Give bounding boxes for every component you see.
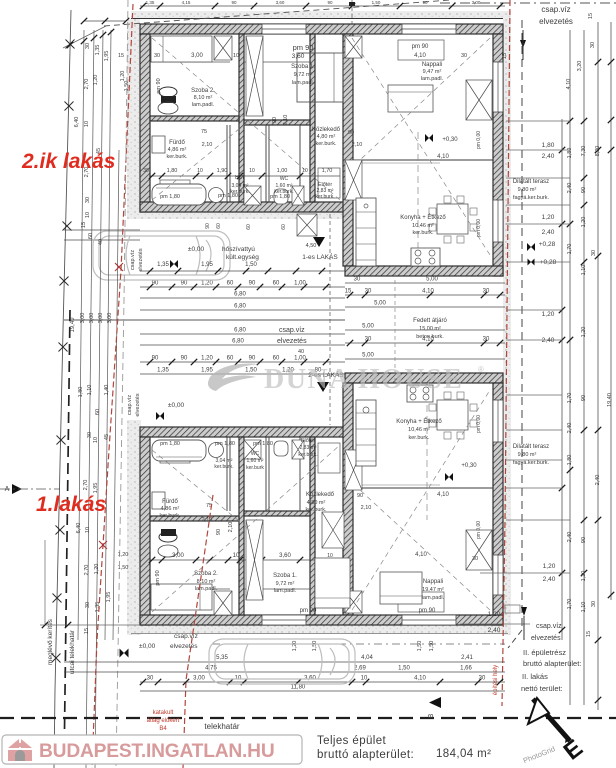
svg-text:1,20: 1,20 bbox=[581, 571, 587, 582]
svg-text:elvezetés: elvezetés bbox=[138, 248, 144, 271]
svg-text:60: 60 bbox=[273, 281, 280, 287]
svg-text:60: 60 bbox=[88, 233, 94, 239]
svg-text:+0,30: +0,30 bbox=[461, 463, 477, 469]
svg-text:ker.burk.: ker.burk. bbox=[412, 230, 434, 236]
svg-text:10: 10 bbox=[93, 437, 99, 443]
svg-text:pm 90: pm 90 bbox=[155, 570, 161, 585]
svg-text:DUNA HOUSE: DUNA HOUSE bbox=[264, 364, 463, 395]
svg-text:1,10: 1,10 bbox=[581, 602, 587, 613]
svg-text:1,50: 1,50 bbox=[417, 641, 423, 652]
svg-text:4,86 m²: 4,86 m² bbox=[161, 506, 180, 512]
svg-text:1,95: 1,95 bbox=[201, 262, 213, 268]
svg-text:8,20: 8,20 bbox=[595, 146, 601, 157]
svg-text:+0,28: +0,28 bbox=[540, 259, 557, 266]
svg-text:15: 15 bbox=[588, 13, 594, 19]
svg-text:pm 90: pm 90 bbox=[412, 44, 429, 50]
svg-text:90: 90 bbox=[249, 281, 256, 287]
svg-text:40: 40 bbox=[98, 239, 104, 245]
svg-text:1,80: 1,80 bbox=[167, 168, 178, 174]
svg-text:pm 1,80: pm 1,80 bbox=[215, 441, 235, 447]
svg-text:1,20: 1,20 bbox=[93, 75, 99, 86]
svg-text:1,90: 1,90 bbox=[217, 168, 228, 174]
svg-text:2,70: 2,70 bbox=[83, 480, 89, 491]
svg-text:pm 0,00: pm 0,00 bbox=[476, 131, 482, 149]
svg-text:1,50: 1,50 bbox=[245, 262, 257, 268]
svg-text:4,10: 4,10 bbox=[415, 552, 427, 558]
svg-text:1,66: 1,66 bbox=[460, 666, 472, 672]
svg-text:1,20: 1,20 bbox=[201, 356, 213, 362]
svg-text:Konyha + Étkező: Konyha + Étkező bbox=[400, 214, 446, 221]
svg-text:1,20: 1,20 bbox=[542, 311, 555, 318]
svg-text:csap.víz: csap.víz bbox=[127, 395, 133, 415]
svg-text:184,04 m²: 184,04 m² bbox=[436, 748, 491, 760]
svg-text:2,70: 2,70 bbox=[84, 79, 90, 90]
svg-text:6,80: 6,80 bbox=[234, 328, 246, 334]
svg-text:15,00 m²: 15,00 m² bbox=[419, 326, 441, 332]
svg-text:6,40: 6,40 bbox=[74, 117, 80, 128]
svg-text:1,20: 1,20 bbox=[94, 564, 100, 575]
svg-text:2,40: 2,40 bbox=[567, 532, 573, 543]
svg-text:Szoba 1.: Szoba 1. bbox=[291, 64, 315, 70]
svg-text:pm 1,80: pm 1,80 bbox=[253, 441, 273, 447]
svg-text:ker.burk.: ker.burk. bbox=[298, 452, 317, 458]
svg-text:10: 10 bbox=[233, 53, 239, 59]
svg-text:lam.padl.: lam.padl. bbox=[192, 102, 215, 108]
svg-text:csap.víz: csap.víz bbox=[279, 327, 305, 334]
svg-text:1,95: 1,95 bbox=[106, 592, 112, 603]
svg-text:90: 90 bbox=[181, 281, 188, 287]
svg-text:1,70: 1,70 bbox=[567, 393, 573, 404]
svg-text:1-es LAKÁS: 1-es LAKÁS bbox=[302, 252, 338, 261]
svg-text:1,50: 1,50 bbox=[312, 641, 318, 652]
svg-text:lam.padl.: lam.padl. bbox=[422, 595, 445, 601]
svg-text:1,50: 1,50 bbox=[372, 0, 381, 5]
svg-text:30: 30 bbox=[354, 277, 361, 283]
svg-text:kült.egység: kült.egység bbox=[226, 254, 259, 261]
svg-text:2,41: 2,41 bbox=[461, 655, 473, 661]
svg-text:pm 0,00: pm 0,00 bbox=[476, 219, 482, 237]
svg-text:2,40: 2,40 bbox=[542, 229, 555, 236]
svg-text:6,80: 6,80 bbox=[234, 304, 246, 310]
svg-text:45: 45 bbox=[104, 434, 110, 440]
svg-text:2,10: 2,10 bbox=[228, 522, 234, 533]
svg-text:10: 10 bbox=[197, 168, 203, 174]
svg-text:5,00: 5,00 bbox=[374, 301, 386, 307]
svg-text:1,10: 1,10 bbox=[581, 265, 587, 276]
svg-text:1,20: 1,20 bbox=[542, 214, 555, 221]
svg-text:2.ik lakás: 2.ik lakás bbox=[21, 150, 115, 173]
svg-text:90: 90 bbox=[216, 529, 222, 535]
svg-text:4,10: 4,10 bbox=[414, 676, 426, 682]
svg-text:4,80 m²: 4,80 m² bbox=[317, 134, 336, 140]
svg-text:30: 30 bbox=[85, 602, 91, 608]
svg-text:75: 75 bbox=[201, 129, 207, 135]
svg-text:1,10: 1,10 bbox=[87, 385, 93, 396]
svg-text:10: 10 bbox=[302, 168, 308, 174]
svg-text:ker.burk.: ker.burk. bbox=[166, 154, 188, 160]
svg-text:2,40: 2,40 bbox=[542, 153, 555, 160]
svg-text:1,80: 1,80 bbox=[542, 142, 555, 149]
svg-text:nettó terület:: nettó terület: bbox=[521, 684, 563, 693]
svg-text:BUDAPEST.INGATLAN.HU: BUDAPEST.INGATLAN.HU bbox=[39, 741, 275, 762]
svg-text:Fedett átjáró: Fedett átjáró bbox=[413, 318, 447, 324]
svg-text:pm 90: pm 90 bbox=[293, 43, 314, 52]
svg-text:1,70: 1,70 bbox=[567, 244, 573, 255]
svg-text:1,35: 1,35 bbox=[146, 0, 155, 5]
svg-text:90: 90 bbox=[422, 0, 428, 5]
svg-text:WC: WC bbox=[280, 176, 289, 182]
svg-text:HZT: HZT bbox=[235, 175, 245, 181]
svg-text:2,40: 2,40 bbox=[488, 627, 501, 634]
svg-text:2,70: 2,70 bbox=[84, 565, 90, 576]
svg-text:15: 15 bbox=[586, 631, 592, 637]
svg-text:+0,28: +0,28 bbox=[539, 241, 556, 248]
svg-text:lam.padl.: lam.padl. bbox=[421, 76, 444, 82]
svg-text:19,47 m²: 19,47 m² bbox=[422, 587, 444, 593]
svg-text:±0,00: ±0,00 bbox=[139, 643, 156, 650]
svg-text:2,83 m²: 2,83 m² bbox=[300, 445, 317, 451]
svg-text:30: 30 bbox=[479, 676, 486, 682]
svg-text:90: 90 bbox=[152, 356, 159, 362]
svg-text:90: 90 bbox=[205, 223, 211, 229]
svg-text:4,10: 4,10 bbox=[437, 154, 449, 160]
svg-text:II. lakás: II. lakás bbox=[522, 672, 548, 681]
svg-text:15: 15 bbox=[81, 222, 87, 228]
svg-text:Szoba 1.: Szoba 1. bbox=[273, 573, 297, 579]
svg-text:1,35: 1,35 bbox=[95, 602, 101, 613]
svg-text:pm 0,00: pm 0,00 bbox=[476, 521, 482, 539]
svg-text:7,30: 7,30 bbox=[581, 146, 587, 157]
svg-text:30: 30 bbox=[147, 676, 154, 682]
svg-text:60: 60 bbox=[95, 409, 101, 415]
svg-text:1,50: 1,50 bbox=[398, 666, 410, 672]
svg-text:bruttó alapterület:: bruttó alapterület: bbox=[523, 659, 581, 668]
svg-text:A: A bbox=[5, 486, 10, 493]
svg-text:4,04: 4,04 bbox=[361, 655, 373, 661]
svg-text:5,00: 5,00 bbox=[426, 277, 438, 283]
svg-text:60: 60 bbox=[227, 356, 234, 362]
svg-text:30: 30 bbox=[483, 289, 490, 295]
svg-text:30: 30 bbox=[85, 197, 91, 203]
svg-text:1,20: 1,20 bbox=[292, 641, 298, 652]
svg-text:30: 30 bbox=[591, 601, 597, 607]
svg-text:30: 30 bbox=[590, 42, 596, 48]
svg-text:30: 30 bbox=[365, 289, 372, 295]
svg-text:Közlekedő: Közlekedő bbox=[306, 492, 335, 498]
svg-text:9,80 m²: 9,80 m² bbox=[518, 187, 537, 193]
svg-text:30: 30 bbox=[591, 250, 597, 256]
svg-text:90: 90 bbox=[181, 356, 188, 362]
svg-text:II. épületrész: II. épületrész bbox=[523, 648, 566, 657]
svg-text:90: 90 bbox=[272, 117, 278, 123]
svg-text:10: 10 bbox=[361, 676, 368, 682]
svg-text:2,10: 2,10 bbox=[202, 517, 213, 523]
svg-text:1,00: 1,00 bbox=[277, 168, 288, 174]
svg-text:Fürdő: Fürdő bbox=[162, 499, 178, 505]
svg-text:4,10: 4,10 bbox=[422, 289, 434, 295]
svg-text:5,00: 5,00 bbox=[362, 353, 374, 359]
svg-text:1,35: 1,35 bbox=[95, 45, 101, 56]
svg-text:+0,30: +0,30 bbox=[442, 137, 458, 143]
svg-text:1,40: 1,40 bbox=[104, 385, 110, 396]
svg-text:1,20: 1,20 bbox=[488, 611, 501, 618]
svg-text:Nappali: Nappali bbox=[422, 62, 442, 68]
svg-text:90: 90 bbox=[231, 0, 237, 5]
svg-text:1,20: 1,20 bbox=[581, 217, 587, 228]
svg-text:Szoba 2.: Szoba 2. bbox=[194, 571, 218, 577]
svg-text:1,20: 1,20 bbox=[543, 563, 556, 570]
svg-text:pm 90: pm 90 bbox=[419, 608, 436, 614]
svg-text:5,35: 5,35 bbox=[216, 655, 228, 661]
svg-text:1,60 m²: 1,60 m² bbox=[247, 458, 264, 464]
svg-text:4,50: 4,50 bbox=[306, 243, 317, 249]
svg-text:10: 10 bbox=[249, 168, 255, 174]
svg-text:4,86 m²: 4,86 m² bbox=[168, 147, 187, 153]
svg-text:30: 30 bbox=[85, 43, 91, 49]
svg-text:±0,00: ±0,00 bbox=[188, 246, 205, 253]
svg-text:1,35: 1,35 bbox=[157, 262, 169, 268]
svg-text:fagyá.ker.burk.: fagyá.ker.burk. bbox=[513, 460, 550, 466]
svg-text:9,72 m²: 9,72 m² bbox=[276, 581, 295, 587]
svg-text:B: B bbox=[428, 713, 435, 718]
svg-text:ker.burk.: ker.burk. bbox=[214, 464, 233, 470]
svg-text:pm 90: pm 90 bbox=[300, 608, 317, 614]
svg-text:1,95: 1,95 bbox=[93, 483, 99, 494]
svg-text:1,70: 1,70 bbox=[322, 168, 333, 174]
svg-text:elvezetés: elvezetés bbox=[539, 17, 573, 26]
svg-text:30: 30 bbox=[461, 53, 467, 59]
svg-text:10: 10 bbox=[233, 553, 240, 559]
svg-text:elvezetés: elvezetés bbox=[135, 393, 141, 416]
svg-text:10,46 m²: 10,46 m² bbox=[412, 223, 434, 229]
svg-text:2,40: 2,40 bbox=[595, 475, 601, 486]
svg-text:15: 15 bbox=[502, 53, 508, 59]
svg-text:90: 90 bbox=[581, 395, 587, 401]
svg-text:10: 10 bbox=[85, 212, 91, 218]
svg-text:90: 90 bbox=[348, 130, 354, 136]
svg-text:ker.burk: ker.burk bbox=[246, 465, 264, 471]
svg-text:bruttó alapterület:: bruttó alapterület: bbox=[317, 749, 414, 761]
svg-text:pm 1,80: pm 1,80 bbox=[160, 441, 180, 447]
svg-text:ker.burk.: ker.burk. bbox=[315, 141, 337, 147]
svg-text:90: 90 bbox=[581, 537, 587, 543]
svg-text:2,40: 2,40 bbox=[543, 576, 556, 583]
svg-text:csap.víz: csap.víz bbox=[536, 623, 562, 630]
svg-text:1,50: 1,50 bbox=[429, 641, 435, 652]
svg-text:3,00: 3,00 bbox=[191, 53, 203, 59]
svg-text:fagyá.ker.burk.: fagyá.ker.burk. bbox=[513, 195, 550, 201]
svg-text:30: 30 bbox=[483, 337, 490, 343]
svg-text:15: 15 bbox=[84, 628, 90, 634]
svg-text:csap.víz: csap.víz bbox=[130, 250, 136, 270]
svg-text:10,46 m²: 10,46 m² bbox=[408, 427, 430, 433]
svg-text:lam.padl.: lam.padl. bbox=[195, 586, 218, 592]
svg-text:lam.padl.: lam.padl. bbox=[274, 588, 297, 594]
svg-text:8,10 m²: 8,10 m² bbox=[194, 95, 213, 101]
svg-text:19,40: 19,40 bbox=[70, 317, 76, 333]
svg-text:átlag előkert: átlag előkert bbox=[147, 718, 180, 724]
svg-text:2,69: 2,69 bbox=[354, 666, 366, 672]
svg-text:utcai telekhatár: utcai telekhatár bbox=[69, 629, 76, 674]
svg-text:pm 1,80: pm 1,80 bbox=[160, 194, 180, 200]
svg-text:4,15: 4,15 bbox=[182, 0, 191, 5]
svg-text:4,80 m²: 4,80 m² bbox=[307, 500, 326, 506]
svg-text:2,10: 2,10 bbox=[361, 505, 372, 511]
svg-text:csap.víz: csap.víz bbox=[174, 633, 198, 640]
svg-text:4,10: 4,10 bbox=[414, 53, 426, 59]
svg-text:2,10: 2,10 bbox=[283, 115, 289, 126]
svg-text:6,80: 6,80 bbox=[234, 292, 246, 298]
svg-text:B4: B4 bbox=[159, 726, 167, 732]
svg-text:60: 60 bbox=[246, 224, 252, 230]
svg-text:csap.víz: csap.víz bbox=[541, 5, 570, 14]
svg-text:90: 90 bbox=[357, 493, 363, 499]
svg-text:3,00: 3,00 bbox=[107, 313, 113, 324]
svg-text:3,00: 3,00 bbox=[193, 676, 205, 682]
svg-text:1,80: 1,80 bbox=[78, 387, 84, 398]
svg-text:15: 15 bbox=[118, 53, 124, 59]
svg-text:30: 30 bbox=[365, 337, 372, 343]
svg-text:Dilatált terasz: Dilatált terasz bbox=[513, 444, 549, 450]
svg-text:60: 60 bbox=[216, 223, 222, 229]
svg-text:4,10: 4,10 bbox=[566, 79, 572, 90]
svg-text:3,00: 3,00 bbox=[98, 313, 104, 324]
svg-text:Szoba 2.: Szoba 2. bbox=[191, 88, 215, 94]
svg-text:4,10: 4,10 bbox=[437, 492, 449, 498]
svg-text:90: 90 bbox=[152, 281, 159, 287]
svg-text:1,95: 1,95 bbox=[104, 51, 110, 62]
svg-text:1,35: 1,35 bbox=[157, 368, 169, 374]
svg-text:1,20: 1,20 bbox=[201, 281, 213, 287]
svg-text:pm 1,80: pm 1,80 bbox=[218, 193, 238, 199]
svg-text:3,60: 3,60 bbox=[276, 0, 285, 5]
svg-text:10: 10 bbox=[84, 121, 90, 127]
svg-text:1,70: 1,70 bbox=[567, 599, 573, 610]
svg-text:40: 40 bbox=[298, 349, 304, 355]
svg-text:4,10: 4,10 bbox=[422, 337, 434, 343]
svg-text:ker.burk.: ker.burk. bbox=[315, 194, 334, 200]
svg-text:3,00: 3,00 bbox=[89, 313, 95, 324]
svg-text:3,60: 3,60 bbox=[279, 553, 291, 559]
svg-text:90: 90 bbox=[249, 356, 256, 362]
svg-text:Fürdő: Fürdő bbox=[169, 140, 185, 146]
svg-text:1,20: 1,20 bbox=[120, 71, 126, 82]
svg-text:katakult: katakult bbox=[153, 710, 174, 716]
svg-text:3,20: 3,20 bbox=[577, 61, 583, 72]
svg-text:1,00: 1,00 bbox=[294, 281, 306, 287]
svg-text:Előtér: Előtér bbox=[301, 438, 316, 444]
svg-text:11,80: 11,80 bbox=[291, 685, 306, 691]
svg-text:10: 10 bbox=[85, 527, 91, 533]
svg-text:1,95: 1,95 bbox=[201, 368, 213, 374]
svg-text:ker.burk.: ker.burk. bbox=[408, 435, 430, 441]
svg-text:6,80: 6,80 bbox=[232, 339, 244, 345]
svg-text:telekhatár: telekhatár bbox=[204, 722, 239, 731]
svg-text:9,80 m²: 9,80 m² bbox=[518, 452, 537, 458]
svg-text:2,10: 2,10 bbox=[202, 142, 213, 148]
svg-text:WC: WC bbox=[251, 451, 260, 457]
svg-text:9,47 m²: 9,47 m² bbox=[423, 69, 442, 75]
svg-text:lam.padl.: lam.padl. bbox=[292, 80, 315, 86]
svg-text:elvezetés: elvezetés bbox=[277, 338, 307, 345]
svg-text:elvezetés: elvezetés bbox=[531, 635, 561, 642]
svg-text:2,40: 2,40 bbox=[567, 183, 573, 194]
svg-text:1,00: 1,00 bbox=[294, 356, 306, 362]
svg-text:pm 0,00: pm 0,00 bbox=[476, 415, 482, 433]
svg-text:1,80: 1,80 bbox=[567, 148, 573, 159]
svg-text:hőszívattyú: hőszívattyú bbox=[222, 246, 255, 253]
svg-text:pm 90: pm 90 bbox=[156, 78, 162, 93]
svg-text:2,40: 2,40 bbox=[542, 337, 555, 344]
svg-text:1,20: 1,20 bbox=[581, 327, 587, 338]
svg-text:pm 1,80: pm 1,80 bbox=[270, 194, 290, 200]
svg-text:2,10: 2,10 bbox=[352, 142, 363, 148]
svg-text:3,60: 3,60 bbox=[292, 53, 305, 60]
svg-text:60: 60 bbox=[281, 224, 287, 230]
svg-text:60: 60 bbox=[273, 356, 280, 362]
svg-text:Nappali: Nappali bbox=[423, 579, 443, 585]
svg-text:ker.burk.: ker.burk. bbox=[159, 513, 181, 519]
svg-text:Közlekedő: Közlekedő bbox=[312, 127, 341, 133]
svg-text:1.lakás: 1.lakás bbox=[36, 493, 106, 516]
svg-text:1,50: 1,50 bbox=[245, 368, 257, 374]
svg-text:3,00: 3,00 bbox=[472, 0, 481, 5]
svg-text:60: 60 bbox=[227, 281, 234, 287]
svg-text:5,00: 5,00 bbox=[362, 324, 374, 330]
svg-text:Dilatált terasz: Dilatált terasz bbox=[513, 179, 549, 185]
svg-text:ker.burk.: ker.burk. bbox=[305, 507, 327, 513]
svg-text:6,40: 6,40 bbox=[76, 523, 82, 534]
svg-text:30: 30 bbox=[143, 168, 149, 174]
svg-text:15: 15 bbox=[345, 289, 352, 295]
svg-text:1,80: 1,80 bbox=[567, 455, 573, 466]
svg-text:30: 30 bbox=[154, 53, 160, 59]
svg-text:9,72 m²: 9,72 m² bbox=[294, 72, 313, 78]
svg-text:30: 30 bbox=[472, 556, 478, 562]
svg-text:elvezetés: elvezetés bbox=[170, 643, 198, 650]
svg-text:90: 90 bbox=[327, 0, 333, 5]
svg-text:Teljes épület: Teljes épület bbox=[317, 735, 387, 747]
svg-text:±0,00: ±0,00 bbox=[168, 402, 185, 409]
svg-text:Konyha + Étkező: Konyha + Étkező bbox=[396, 418, 442, 425]
svg-text:®: ® bbox=[478, 365, 484, 374]
svg-text:2,40: 2,40 bbox=[567, 423, 573, 434]
svg-text:19,40: 19,40 bbox=[607, 393, 613, 407]
svg-text:3,00: 3,00 bbox=[80, 313, 86, 324]
svg-text:90: 90 bbox=[581, 187, 587, 193]
